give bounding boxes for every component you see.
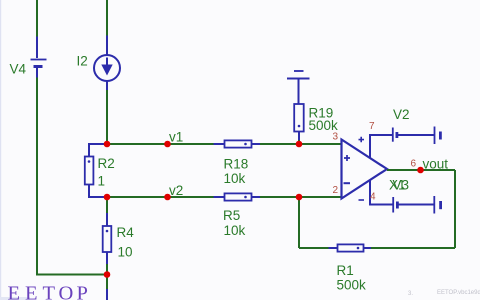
svg-text:R4: R4	[117, 225, 135, 240]
wire	[106, 0, 108, 36]
junction	[296, 194, 303, 201]
wire	[298, 140, 300, 144]
battery V4	[10, 37, 47, 78]
wire	[260, 196, 342, 198]
svg-text:1: 1	[98, 174, 106, 189]
svg-text:E: E	[8, 283, 21, 300]
wire	[36, 274, 107, 276]
node v2	[169, 183, 183, 198]
wire	[260, 143, 342, 145]
ground	[287, 71, 310, 104]
battery V2	[393, 107, 441, 144]
wire vout	[387, 169, 455, 171]
svg-text:v2: v2	[169, 183, 183, 198]
pin 4	[370, 191, 376, 202]
wire	[454, 170, 456, 248]
wire	[299, 247, 329, 249]
svg-text:EETOP.vbc1e9d05: EETOP.vbc1e9d05	[437, 290, 480, 296]
svg-text:R2: R2	[98, 156, 115, 171]
svg-text:R5: R5	[223, 208, 240, 223]
svg-text:2: 2	[333, 185, 339, 196]
svg-text:O: O	[59, 283, 74, 300]
left edge tint	[0, 0, 1, 300]
junction	[417, 167, 424, 174]
svg-text:3: 3	[333, 131, 339, 142]
pin 7	[369, 121, 375, 132]
wire v1 row	[107, 143, 214, 145]
junction	[104, 271, 111, 278]
svg-text:vout: vout	[423, 157, 449, 172]
svg-text:6: 6	[411, 159, 417, 170]
watermark EETOP	[8, 283, 88, 300]
svg-text:V2: V2	[393, 107, 410, 122]
junction	[164, 141, 171, 148]
svg-text:7: 7	[369, 121, 375, 132]
svg-text:P: P	[77, 283, 88, 300]
wire	[36, 0, 38, 37]
pin 2	[333, 185, 339, 196]
wire	[371, 247, 455, 249]
junction	[104, 141, 111, 148]
svg-text:V3: V3	[393, 178, 410, 193]
wire	[106, 275, 108, 300]
svg-text:V4: V4	[10, 62, 27, 77]
pin 3	[333, 131, 339, 142]
wire	[36, 78, 38, 275]
resistor R2	[85, 143, 115, 198]
bottom-left corner tint	[0, 297, 30, 300]
svg-text:10: 10	[118, 245, 133, 260]
pin 6	[411, 159, 417, 170]
svg-text:4: 4	[370, 191, 376, 202]
svg-text:10k: 10k	[224, 223, 246, 238]
junction	[104, 194, 111, 201]
watermark small	[408, 290, 480, 297]
node v1	[169, 130, 183, 145]
node vout	[423, 157, 449, 172]
wire	[106, 90, 108, 144]
wire	[298, 197, 300, 248]
svg-text:R18: R18	[224, 156, 249, 171]
svg-text:v1: v1	[169, 130, 183, 145]
svg-text:I2: I2	[77, 54, 88, 69]
svg-text:3.: 3.	[408, 291, 413, 297]
svg-text:T: T	[43, 283, 56, 300]
svg-text:R1: R1	[337, 263, 354, 278]
svg-text:500k: 500k	[337, 277, 367, 292]
current source I2	[77, 36, 121, 91]
resistor R18	[214, 140, 261, 185]
resistor R5	[214, 193, 261, 238]
battery V3	[393, 196, 440, 214]
wire v2 row	[107, 196, 214, 198]
svg-text:E: E	[25, 283, 38, 300]
svg-text:10k: 10k	[224, 171, 246, 186]
resistor R1	[329, 244, 372, 292]
resistor R19	[294, 104, 338, 140]
resistor R4	[103, 197, 135, 275]
junction	[164, 194, 171, 201]
junction	[296, 141, 303, 148]
op-amp X1	[342, 135, 410, 205]
